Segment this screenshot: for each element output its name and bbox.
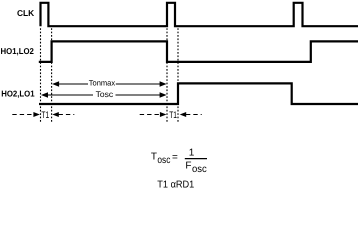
wire HO2,LO1 waveform: [39, 83, 358, 104]
dimension Tonmax arrow: [58, 83, 162, 85]
dimension T1 first: left dashed arrow: [12, 114, 34, 116]
svg-text:T1: T1: [169, 110, 177, 121]
svg-text:1: 1: [189, 148, 195, 159]
svg-text:HO2,LO1: HO2,LO1: [1, 89, 35, 99]
node HO1 rise dotted guide line 2: [51, 28, 53, 122]
formula Tosc = 1/Fosc: [151, 148, 207, 175]
dimension Tosc arrow: [46, 94, 161, 96]
node HO2 rise dotted guide line 4: [177, 28, 179, 122]
svg-text:Tonmax: Tonmax: [89, 78, 115, 87]
dimension T1 second: left dashed arrow: [140, 114, 162, 116]
svg-text:T1: T1: [41, 110, 49, 121]
svg-text:HO1,LO2: HO1,LO2: [1, 46, 35, 56]
svg-text:Tosc: Tosc: [96, 90, 114, 99]
svg-text:T: T: [151, 152, 157, 163]
dimension T1 second: right dashed arrow: [180, 112, 187, 117]
node CLK dotted guide line 1: [40, 28, 42, 122]
svg-text:osc: osc: [157, 155, 170, 166]
svg-text:osc: osc: [192, 164, 207, 175]
svg-text:=: =: [172, 152, 178, 163]
wire CLK waveform: [41, 3, 359, 26]
dimension T1 first: right dashed arrow: [52, 112, 59, 117]
node CLK2 dotted guide line 3: [166, 28, 168, 122]
svg-text:CLK: CLK: [17, 8, 35, 18]
wire HO1,LO2 waveform: [39, 41, 358, 62]
svg-text:T1 αRD1: T1 αRD1: [157, 180, 194, 191]
svg-text:F: F: [185, 161, 191, 172]
